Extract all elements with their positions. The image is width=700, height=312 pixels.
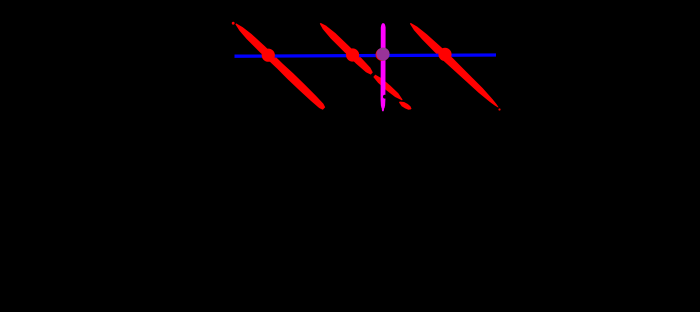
red line 2 lower segment <box>399 102 412 110</box>
red line 2 upper segment <box>320 23 373 75</box>
purple dot at magenta crossing <box>376 48 389 61</box>
red dot 3 <box>438 48 451 61</box>
red line 3 (right diagonal stroke) <box>410 23 499 108</box>
red line 3 end speck <box>498 108 500 110</box>
magenta stroke tail <box>382 108 385 111</box>
red fringe under purple dot <box>376 48 389 61</box>
red line 1 (left diagonal stroke) <box>235 23 325 109</box>
red dot 2 <box>346 48 359 61</box>
red line 1 start speck <box>232 22 235 25</box>
magenta vertical stroke <box>381 23 386 108</box>
black notch on magenta line <box>383 95 387 99</box>
red line 2 middle segment <box>373 75 402 101</box>
blue horizontal line <box>235 55 497 56</box>
red dot 1 <box>262 49 275 62</box>
